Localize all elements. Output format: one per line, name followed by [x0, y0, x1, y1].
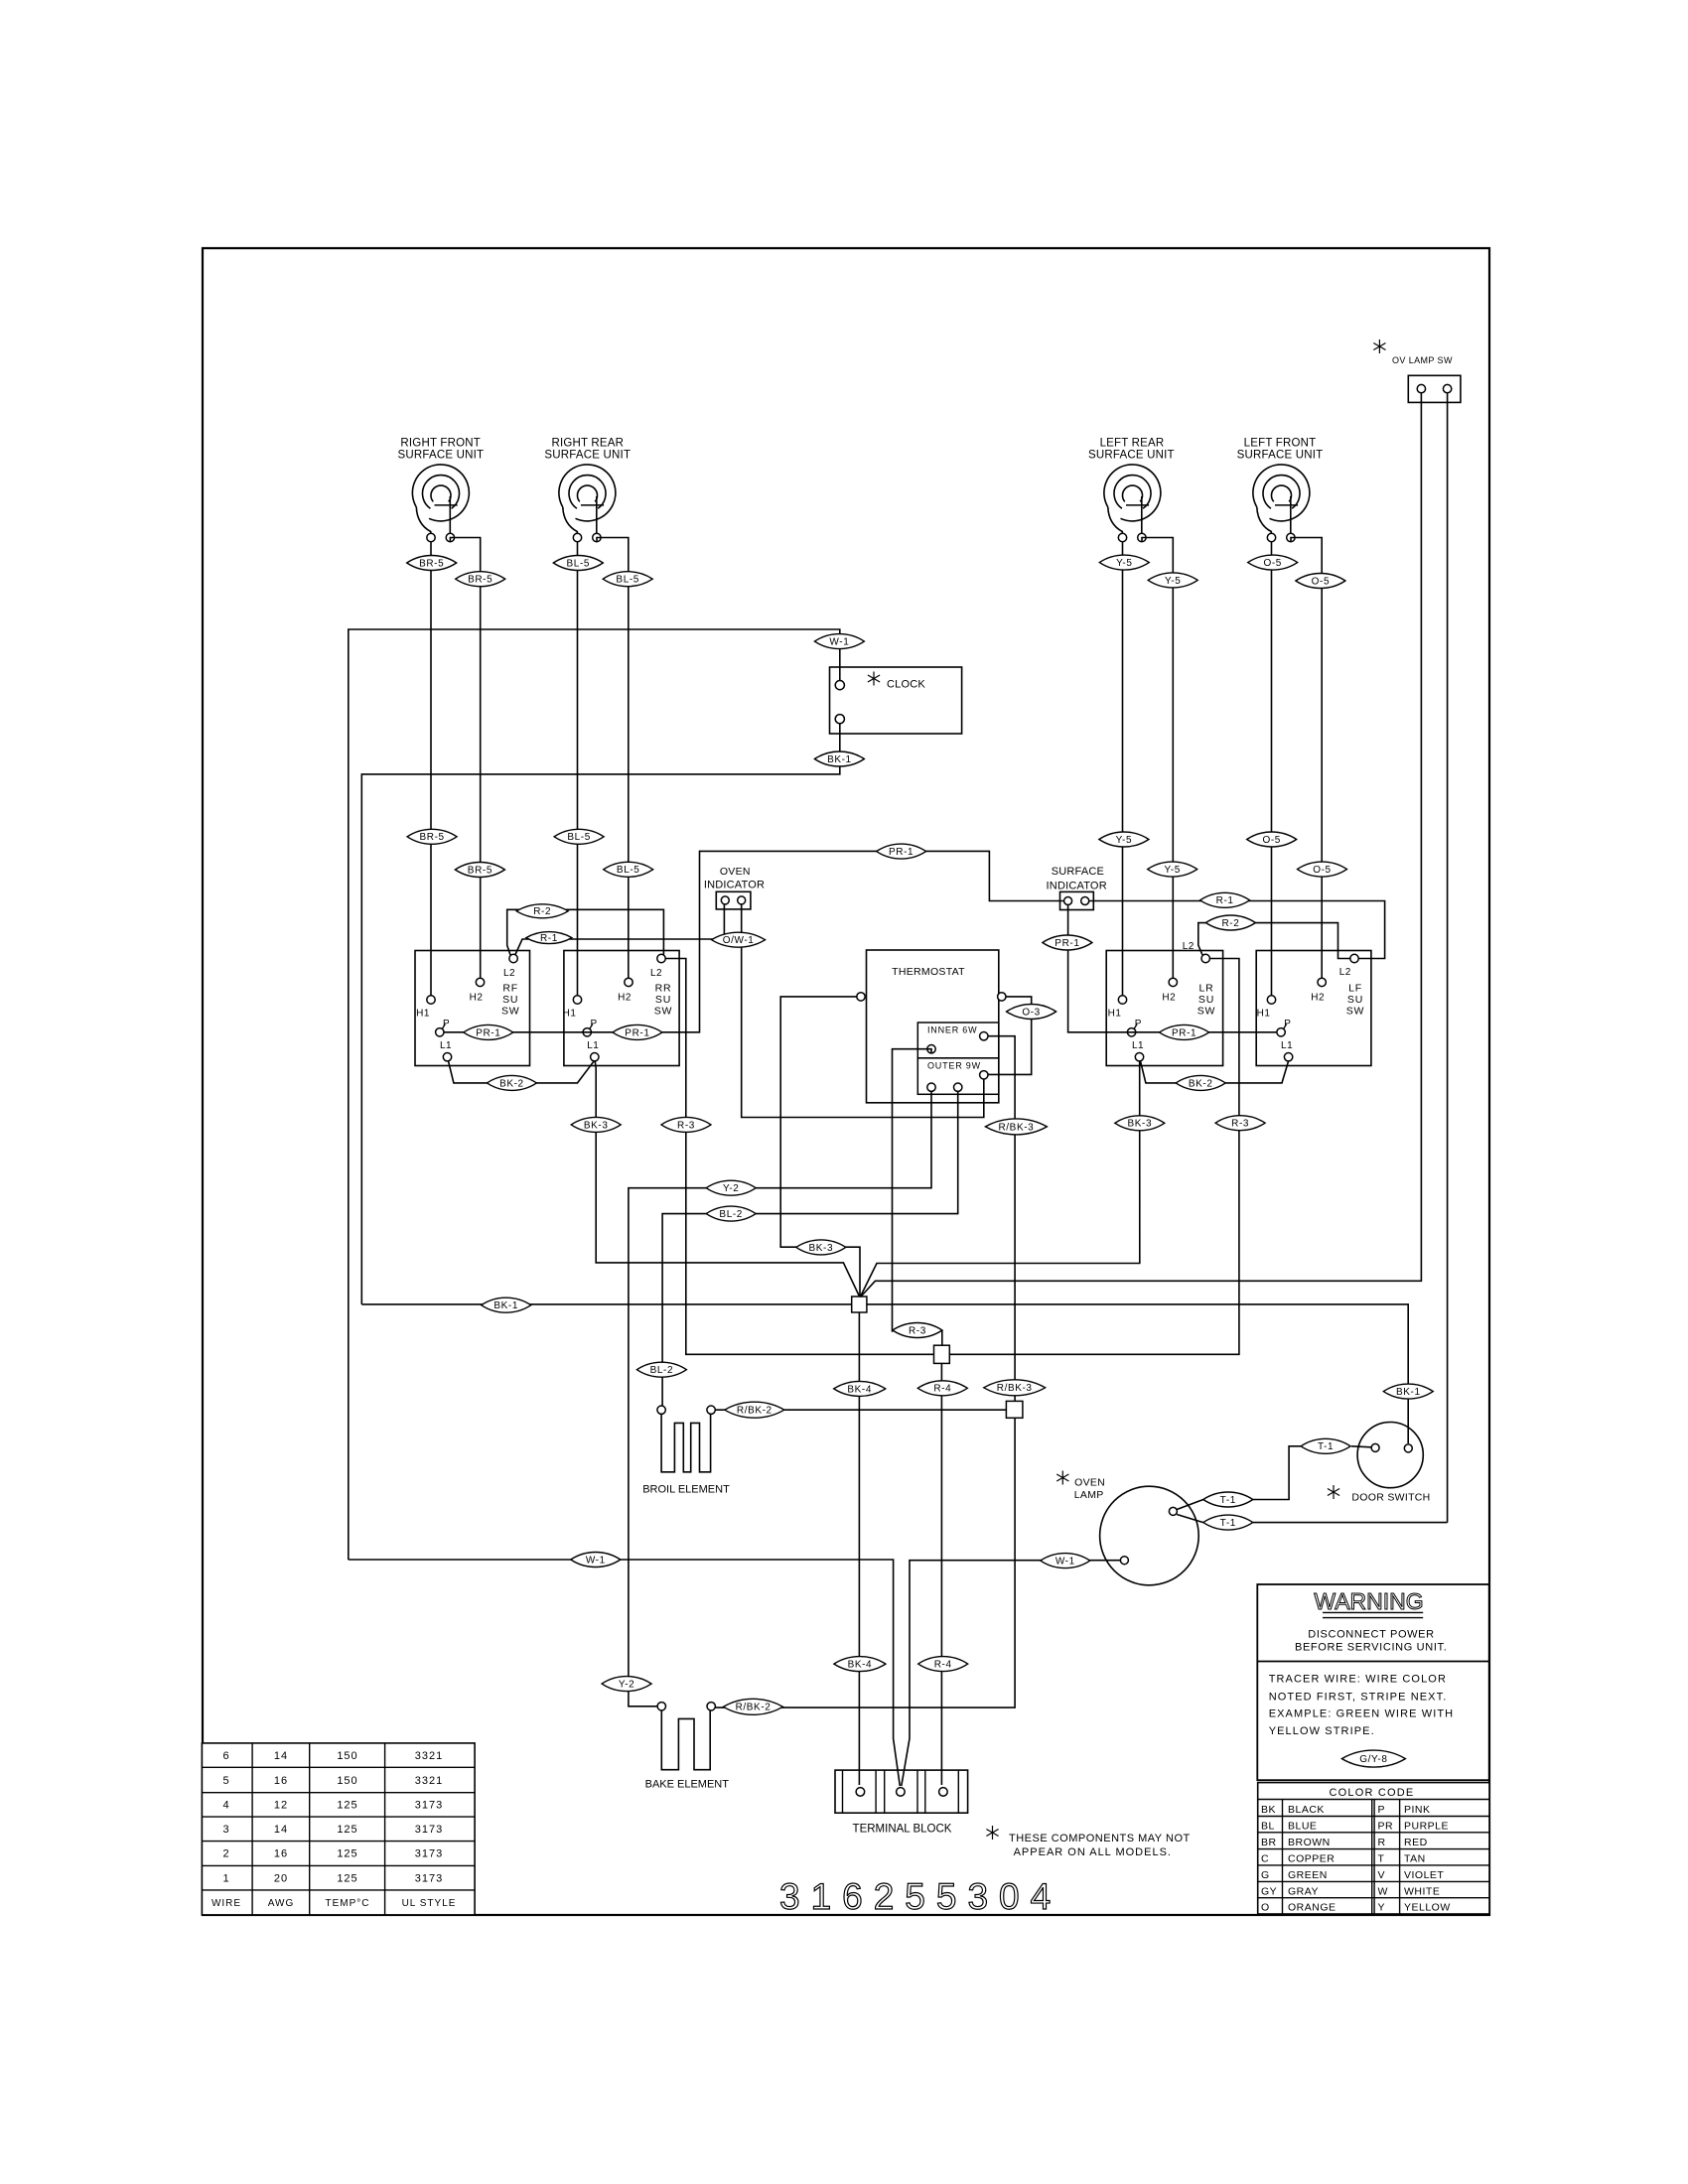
svg-text:SURFACE: SURFACE [1052, 866, 1104, 878]
terminal oven lamp top right [1169, 1507, 1177, 1515]
terminal bake left [657, 1703, 665, 1710]
wire label O/W-1 [712, 932, 766, 947]
svg-text:BROIL ELEMENT: BROIL ELEMENT [642, 1484, 730, 1496]
switch circle DOOR SWITCH [1357, 1423, 1423, 1488]
element BAKE ELEMENT [661, 1710, 710, 1770]
svg-text:GY: GY [1261, 1885, 1277, 1897]
wire O/W-1 oven indicator to outer 9w [742, 904, 984, 1118]
svg-text:BL: BL [1261, 1821, 1275, 1833]
wire PR-1 surface indicator to LR-P LF-P [1068, 905, 1277, 1032]
wire BL-5 RR H2 [597, 538, 629, 979]
svg-text:Y-5: Y-5 [1116, 835, 1132, 846]
svg-text:4: 4 [222, 1800, 229, 1812]
svg-text:2: 2 [222, 1848, 229, 1860]
wire label T-1 a [1301, 1438, 1350, 1453]
wire label R/BK-3 a [985, 1119, 1047, 1135]
component box THERMOSTAT [867, 950, 999, 1103]
svg-text:BEFORE SERVICING UNIT.: BEFORE SERVICING UNIT. [1295, 1642, 1447, 1654]
svg-text:125: 125 [337, 1824, 357, 1836]
wire BL-5 RR H1 [577, 542, 579, 996]
page border frame [203, 248, 1489, 1915]
svg-text:TERMINAL BLOCK: TERMINAL BLOCK [853, 1824, 952, 1836]
svg-text:L2: L2 [1183, 941, 1195, 952]
svg-text:VIOLET: VIOLET [1404, 1869, 1444, 1881]
svg-text:BK-2: BK-2 [1189, 1078, 1213, 1089]
svg-text:APPEAR ON ALL MODELS.: APPEAR ON ALL MODELS. [1014, 1846, 1172, 1858]
terminal clock top [835, 681, 844, 690]
svg-text:3173: 3173 [415, 1873, 443, 1885]
svg-text:150: 150 [337, 1775, 357, 1787]
terminal inner 6w right [980, 1032, 988, 1040]
svg-text:COPPER: COPPER [1288, 1853, 1335, 1865]
wire label BK-1 c [1383, 1384, 1433, 1399]
svg-text:RIGHT FRONT: RIGHT FRONT [400, 438, 481, 450]
box INNER 6W [917, 1023, 999, 1058]
svg-text:RF: RF [502, 983, 518, 995]
wire PR-1 RF-P to RR-P to surface indicator [444, 851, 1064, 1031]
svg-text:RR: RR [655, 983, 672, 995]
svg-text:LF: LF [1348, 983, 1362, 995]
svg-text:R: R [1378, 1837, 1386, 1848]
svg-text:H1: H1 [416, 1009, 430, 1020]
svg-text:O: O [1261, 1902, 1270, 1914]
svg-text:TAN: TAN [1404, 1853, 1426, 1865]
svg-text:R-4: R-4 [933, 1384, 951, 1395]
wire label R-2 b [1205, 915, 1255, 930]
wire label O-3 [1007, 1005, 1056, 1020]
svg-text:H1: H1 [1108, 1009, 1122, 1020]
svg-text:SURFACE UNIT: SURFACE UNIT [544, 450, 631, 462]
svg-text:W-1: W-1 [1055, 1557, 1075, 1568]
wire label BK-3 b [1115, 1116, 1165, 1131]
coil RF surface unit [412, 465, 469, 521]
svg-text:R-3: R-3 [677, 1120, 695, 1131]
wire BK-1 junction 1 to door switch [867, 1304, 1408, 1443]
terminal outer 9w bottom left [927, 1083, 935, 1091]
svg-text:BK-3: BK-3 [1127, 1119, 1152, 1130]
svg-text:BL-5: BL-5 [567, 832, 591, 843]
svg-text:SU: SU [1347, 994, 1363, 1006]
svg-text:SW: SW [654, 1006, 673, 1018]
wire label R-3 c [893, 1323, 942, 1338]
wire label PR-1 e [1160, 1024, 1209, 1039]
coil RR surface unit [559, 465, 616, 521]
svg-text:RED: RED [1404, 1837, 1428, 1848]
indicator box OVEN INDICATOR [716, 891, 751, 909]
wire label R/BK-2 b [724, 1699, 783, 1714]
svg-text:BK-1: BK-1 [493, 1300, 518, 1311]
wire label BK-2 a [487, 1075, 536, 1090]
wire T-1 oven lamp to upper label [1177, 1500, 1203, 1510]
wire T-1 ov lamp sw right down [1447, 393, 1449, 1523]
switch box OV LAMP SW [1408, 375, 1461, 402]
terminal door switch right [1404, 1444, 1412, 1452]
svg-text:BK-1: BK-1 [1396, 1387, 1421, 1398]
svg-text:SURFACE UNIT: SURFACE UNIT [1088, 450, 1175, 462]
wire label BK-2 b [1176, 1075, 1225, 1090]
wire label BL-5 d [604, 862, 653, 877]
svg-text:R-4: R-4 [934, 1660, 952, 1671]
svg-text:H2: H2 [1162, 992, 1176, 1003]
svg-text:PR-1: PR-1 [889, 847, 914, 858]
wire label Y-2 b [602, 1677, 651, 1692]
svg-text:WIRE: WIRE [211, 1898, 241, 1909]
wire label PR-1 a [464, 1024, 513, 1039]
terminal ov lamp sw right [1443, 384, 1451, 392]
svg-text:BR-5: BR-5 [468, 865, 492, 876]
wire Y-2 outer 9w to bake element [629, 1091, 931, 1706]
svg-text:PR: PR [1378, 1821, 1394, 1833]
switch RF SU SW [415, 951, 530, 1066]
svg-text:R/BK-3: R/BK-3 [998, 1122, 1034, 1133]
svg-text:YELLOW STRIPE.: YELLOW STRIPE. [1269, 1725, 1375, 1737]
wire label W-1 b [571, 1553, 621, 1568]
wire label O-5 d [1298, 862, 1347, 877]
wire label R-4 b [918, 1657, 968, 1672]
svg-text:W-1: W-1 [586, 1555, 606, 1566]
wire label BR-5 b [456, 572, 505, 587]
svg-text:THESE COMPONENTS MAY NOT: THESE COMPONENTS MAY NOT [1009, 1833, 1191, 1844]
svg-text:TRACER WIRE: WIRE COLOR: TRACER WIRE: WIRE COLOR [1269, 1674, 1447, 1686]
svg-text:BK-4: BK-4 [848, 1660, 873, 1671]
wire label R-1 a [526, 932, 572, 944]
junction square 1 BK [852, 1297, 867, 1312]
svg-text:R-3: R-3 [909, 1325, 926, 1336]
wire label W-1 c [1041, 1554, 1090, 1569]
svg-text:12: 12 [274, 1800, 288, 1812]
wire R-1 surface indicator to LF-L2 [1089, 901, 1385, 959]
wire label Y-5 d [1148, 862, 1197, 877]
wire BL-2 outer 9w to broil element [662, 1091, 958, 1406]
svg-text:L2: L2 [650, 968, 662, 979]
terminal surface indicator right [1081, 897, 1089, 905]
wire BK-3 thermostat left to junction [780, 997, 860, 1297]
svg-text:W-1: W-1 [829, 637, 849, 648]
svg-text:L1: L1 [1281, 1040, 1293, 1051]
terminal ov lamp sw left [1417, 384, 1425, 392]
wire label BL-5 c [554, 829, 604, 844]
svg-text:Y-2: Y-2 [619, 1680, 634, 1691]
svg-text:125: 125 [337, 1800, 357, 1812]
wire W-1 oven lamp to terminal block [902, 1561, 1121, 1786]
svg-text:H1: H1 [563, 1009, 577, 1020]
box OUTER 9W [917, 1058, 999, 1095]
wire label R/BK-3 b [984, 1380, 1046, 1396]
svg-text:P: P [443, 1019, 450, 1029]
svg-text:LEFT REAR: LEFT REAR [1100, 438, 1165, 450]
svg-text:Y: Y [1378, 1902, 1386, 1914]
asterisk ov lamp sw [1378, 340, 1380, 353]
wire T-1 oven lamp to ov lamp sw [1177, 1515, 1203, 1523]
wire R-3 LR-L2 to junction 2 [949, 959, 1239, 1355]
wire label BL-2 a [706, 1206, 756, 1221]
wire R-1 RF-L2 to oven indicator [515, 904, 724, 955]
svg-text:L2: L2 [503, 968, 515, 979]
wire R/BK-2 broil element to junction 3 [715, 1409, 1006, 1411]
wire label G/Y-8 [1341, 1750, 1405, 1767]
svg-text:P: P [590, 1019, 597, 1029]
svg-text:O/W-1: O/W-1 [723, 935, 755, 946]
svg-text:3: 3 [222, 1824, 229, 1836]
svg-text:SU: SU [502, 994, 518, 1006]
svg-text:T-1: T-1 [1318, 1441, 1334, 1452]
wire R-3 inner 6w to junction 2 [893, 1049, 932, 1332]
wire label W-1 clock [814, 634, 864, 649]
terminal broil right [707, 1406, 715, 1414]
svg-text:PURPLE: PURPLE [1404, 1821, 1449, 1833]
wire T-1 upper label to door switch [1253, 1446, 1301, 1500]
wire label BR-5 c [407, 829, 457, 844]
wire label R-2 a [516, 904, 568, 918]
wire label BK-1 clock [814, 751, 864, 766]
svg-text:1: 1 [222, 1873, 229, 1885]
wire label BK-1 b [482, 1297, 531, 1312]
svg-text:C: C [1261, 1853, 1269, 1865]
svg-text:BK-4: BK-4 [847, 1384, 872, 1395]
wire Y-5 LR H2 [1142, 538, 1173, 979]
svg-text:H2: H2 [618, 992, 632, 1003]
junction square 2 R [934, 1345, 950, 1363]
table wire gauge [202, 1743, 475, 1915]
svg-text:T: T [1378, 1853, 1385, 1865]
svg-text:INDICATOR: INDICATOR [1047, 881, 1107, 892]
wire BK-2 LR-L1 to LF-L1 [1141, 1061, 1289, 1083]
svg-text:EXAMPLE: GREEN WIRE WITH: EXAMPLE: GREEN WIRE WITH [1269, 1708, 1455, 1720]
svg-text:P: P [1135, 1019, 1142, 1029]
wire label BR-5 a [407, 556, 457, 571]
coil LF surface unit [1253, 465, 1310, 521]
svg-text:INNER 6W: INNER 6W [927, 1024, 977, 1034]
wire T-1 label to door switch [1351, 1446, 1371, 1447]
terminal thermostat left [857, 993, 865, 1001]
svg-text:BK-2: BK-2 [499, 1078, 524, 1089]
svg-text:V: V [1378, 1869, 1386, 1881]
terminal oven lamp bottom left [1120, 1557, 1128, 1565]
wire BK-1 ov lamp sw left down [861, 393, 1422, 1297]
svg-text:BK: BK [1261, 1804, 1276, 1816]
wire R-4 junction 2 to terminal block [940, 1363, 942, 1785]
wire R/BK-2 junction 3 to bake element [715, 1418, 1015, 1707]
svg-text:Y-2: Y-2 [723, 1183, 739, 1194]
svg-text:Y-5: Y-5 [1165, 576, 1181, 587]
wire label PR-1 c [877, 844, 926, 859]
divider warning box [1257, 1661, 1488, 1663]
svg-text:CLOCK: CLOCK [887, 679, 925, 691]
svg-text:L1: L1 [587, 1040, 599, 1051]
svg-text:H2: H2 [1311, 992, 1325, 1003]
svg-text:INDICATOR: INDICATOR [704, 879, 765, 890]
svg-text:H2: H2 [470, 992, 484, 1003]
svg-text:PR-1: PR-1 [1172, 1027, 1196, 1038]
svg-text:PINK: PINK [1404, 1804, 1431, 1816]
wire label O-5 c [1247, 832, 1297, 847]
switch LF SU SW [1256, 951, 1371, 1066]
svg-text:14: 14 [274, 1750, 288, 1762]
wire Y-5 LR H1 [1122, 542, 1124, 996]
indicator box SURFACE INDICATOR [1060, 891, 1094, 909]
svg-text:LR: LR [1198, 983, 1213, 995]
svg-text:125: 125 [337, 1873, 357, 1885]
wire R-3 label to junction 2 [941, 1330, 943, 1345]
svg-text:14: 14 [274, 1824, 288, 1836]
switch LR SU SW [1106, 951, 1222, 1066]
terminal inner 6w left [927, 1045, 935, 1053]
wire label R-1 b [1200, 892, 1250, 907]
svg-text:DOOR SWITCH: DOOR SWITCH [1351, 1492, 1430, 1504]
terminal outer 9w right [980, 1071, 988, 1079]
svg-text:R-2: R-2 [533, 906, 551, 917]
svg-text:R-2: R-2 [1221, 918, 1239, 929]
svg-text:3321: 3321 [415, 1775, 443, 1787]
svg-text:125: 125 [337, 1848, 357, 1860]
svg-text:PR-1: PR-1 [476, 1027, 500, 1038]
svg-text:O-3: O-3 [1022, 1007, 1040, 1018]
wire label T-1 c [1203, 1515, 1253, 1530]
terminal clock bottom [835, 715, 844, 724]
svg-text:20: 20 [274, 1873, 288, 1885]
svg-text:BL-5: BL-5 [567, 558, 591, 569]
wire label PR-1 d [1043, 935, 1092, 950]
svg-text:6: 6 [222, 1750, 229, 1762]
wire label R-3 b [1215, 1116, 1265, 1131]
svg-text:PR-1: PR-1 [1055, 938, 1079, 949]
svg-text:R-3: R-3 [1231, 1119, 1249, 1130]
svg-text:YELLOW: YELLOW [1404, 1902, 1451, 1914]
wire R-2 LR-L2 to LF-L2 [1198, 923, 1350, 959]
svg-text:LAMP: LAMP [1074, 1489, 1104, 1501]
wire label BL-5 b [603, 572, 652, 587]
asterisk oven lamp [1061, 1471, 1063, 1485]
svg-text:R/BK-2: R/BK-2 [736, 1703, 772, 1713]
wire R/BK-3 inner 6w to junction 3 [988, 1036, 1015, 1402]
terminal outer 9w bottom right [954, 1083, 962, 1091]
wire label O-5 b [1296, 574, 1345, 589]
wire BR-5 RF H2 [450, 538, 480, 979]
svg-text:OUTER 9W: OUTER 9W [927, 1060, 981, 1070]
svg-text:16: 16 [274, 1775, 288, 1787]
wire label Y-5 a [1099, 555, 1149, 570]
svg-text:5: 5 [222, 1775, 229, 1787]
svg-text:R-1: R-1 [1216, 895, 1234, 906]
terminal broil left [657, 1406, 665, 1414]
svg-text:G: G [1261, 1869, 1270, 1881]
wire O-3 thermostat to outer 9w [988, 997, 1032, 1075]
wire R-2 RF-L2 to RR-L2 [507, 909, 664, 955]
svg-text:NOTED FIRST, STRIPE NEXT.: NOTED FIRST, STRIPE NEXT. [1269, 1692, 1448, 1704]
terminal block lug middle [897, 1788, 906, 1797]
element BROIL ELEMENT [661, 1414, 711, 1471]
svg-text:SURFACE UNIT: SURFACE UNIT [398, 450, 485, 462]
terminal bake right [707, 1703, 715, 1710]
switch RR SU SW [564, 951, 679, 1066]
wire label BL-2 b [636, 1362, 686, 1377]
svg-text:OV LAMP SW: OV LAMP SW [1392, 355, 1453, 365]
junction square 3 R/BK [1006, 1401, 1023, 1418]
wire T-1 run to ov lamp sw right [1253, 1522, 1448, 1524]
wire BK-4 junction 1 to terminal block [858, 1312, 860, 1785]
svg-text:R/BK-2: R/BK-2 [737, 1406, 773, 1417]
svg-text:316255304: 316255304 [779, 1876, 1061, 1917]
wire label BL-5 a [553, 556, 603, 571]
wire label BK-3 a [571, 1117, 621, 1132]
svg-text:OVEN: OVEN [720, 866, 751, 878]
component box CLOCK [830, 667, 962, 734]
wire W-1 top run [349, 629, 840, 1560]
svg-text:O-5: O-5 [1263, 558, 1281, 569]
svg-text:BR-5: BR-5 [468, 575, 492, 586]
svg-text:BK-3: BK-3 [808, 1243, 833, 1254]
svg-text:150: 150 [337, 1750, 357, 1762]
svg-text:Y-5: Y-5 [1164, 865, 1180, 876]
svg-text:SW: SW [1197, 1006, 1216, 1018]
svg-text:TEMP°C: TEMP°C [326, 1898, 370, 1909]
svg-text:BL-2: BL-2 [650, 1365, 674, 1376]
svg-text:O-5: O-5 [1262, 835, 1280, 846]
wire BK-1 clock run [361, 724, 840, 1304]
table COLOR CODE [1258, 1783, 1489, 1914]
svg-text:SW: SW [501, 1006, 520, 1018]
svg-text:R-1: R-1 [540, 933, 558, 944]
svg-text:SU: SU [655, 994, 671, 1006]
svg-text:BL-5: BL-5 [616, 575, 639, 586]
svg-text:BL-2: BL-2 [719, 1209, 743, 1220]
svg-text:L1: L1 [1132, 1040, 1144, 1051]
asterisk clock [873, 672, 875, 686]
terminal thermostat right [998, 993, 1006, 1001]
wire BK-2 RF-L1 to RR-L1 [449, 1061, 595, 1083]
svg-text:Y-5: Y-5 [1116, 558, 1132, 569]
terminal block lug left [856, 1788, 865, 1797]
svg-text:UL STYLE: UL STYLE [402, 1898, 457, 1909]
wire label BR-5 d [455, 863, 504, 878]
wire W-1 bottom left to terminal block [349, 1560, 901, 1786]
svg-text:BAKE ELEMENT: BAKE ELEMENT [645, 1779, 730, 1791]
component box TERMINAL BLOCK [835, 1770, 968, 1813]
wire label Y-5 c [1099, 832, 1149, 847]
svg-text:G/Y-8: G/Y-8 [1359, 1754, 1387, 1765]
svg-text:BR: BR [1261, 1837, 1277, 1848]
svg-text:3321: 3321 [415, 1750, 443, 1762]
lamp circle OVEN LAMP [1100, 1486, 1199, 1585]
svg-text:3173: 3173 [415, 1824, 443, 1836]
svg-text:THERMOSTAT: THERMOSTAT [892, 966, 965, 978]
terminal block lug right [939, 1788, 948, 1797]
wire label R-4 a [917, 1381, 967, 1396]
svg-text:P: P [1378, 1804, 1386, 1816]
wire O-5 LF H1 [1271, 542, 1273, 996]
svg-text:COLOR CODE: COLOR CODE [1330, 1787, 1415, 1799]
wire label Y-2 a [706, 1180, 756, 1195]
svg-text:BR-5: BR-5 [419, 558, 444, 569]
box WARNING [1257, 1584, 1488, 1780]
wire label BK-4 b [834, 1657, 886, 1672]
wire label BK-4 a [834, 1381, 886, 1396]
svg-text:SW: SW [1346, 1006, 1365, 1018]
svg-text:P: P [1284, 1019, 1291, 1029]
wire label R-3 a [661, 1117, 711, 1132]
wire BK-3 LR-L1 down to junction [860, 1061, 1140, 1297]
svg-text:SU: SU [1198, 994, 1214, 1006]
svg-text:LEFT FRONT: LEFT FRONT [1244, 438, 1317, 450]
asterisk footnote [992, 1826, 994, 1840]
svg-text:L1: L1 [440, 1040, 452, 1051]
terminal oven indicator left [721, 896, 729, 904]
svg-text:L2: L2 [1339, 967, 1351, 978]
svg-text:RIGHT REAR: RIGHT REAR [551, 438, 624, 450]
svg-text:3173: 3173 [415, 1848, 443, 1860]
svg-text:T-1: T-1 [1220, 1518, 1236, 1529]
svg-text:PR-1: PR-1 [625, 1027, 649, 1038]
